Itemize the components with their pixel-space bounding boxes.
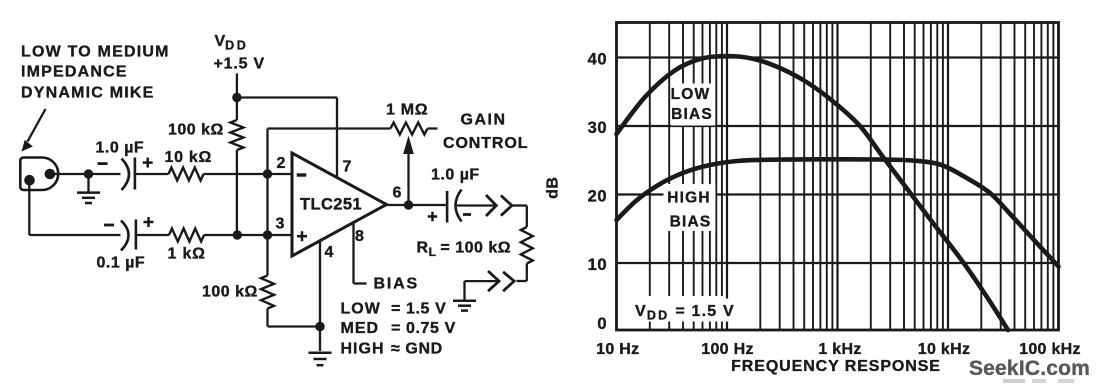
svg-text:20: 20 [588, 187, 607, 205]
svg-text:2: 2 [277, 155, 286, 172]
svg-text:10: 10 [588, 256, 607, 274]
svg-text:1.0 µF: 1.0 µF [431, 167, 480, 184]
svg-text:3: 3 [276, 216, 285, 233]
svg-text:4: 4 [325, 244, 334, 261]
svg-text:HIGH: HIGH [667, 190, 711, 207]
svg-text:dB: dB [545, 177, 562, 199]
svg-text:SeekIC.com: SeekIC.com [969, 357, 1090, 380]
svg-text:100 kΩ: 100 kΩ [202, 284, 258, 301]
svg-text:0.1 µF: 0.1 µF [97, 255, 146, 272]
svg-text:1 kΩ: 1 kΩ [168, 246, 206, 263]
svg-text:LOW: LOW [341, 301, 381, 318]
svg-text:LOW: LOW [671, 86, 711, 103]
svg-text:8: 8 [355, 228, 364, 245]
svg-text:7: 7 [343, 159, 352, 176]
svg-text:TLC251: TLC251 [300, 196, 362, 214]
svg-text:BIAS: BIAS [374, 276, 419, 293]
svg-text:40: 40 [588, 50, 607, 68]
svg-text:1.0 µF: 1.0 µF [96, 140, 145, 157]
svg-text:= 0.75 V: = 0.75 V [391, 320, 456, 337]
svg-text:DYNAMIC MIKE: DYNAMIC MIKE [21, 85, 155, 102]
svg-text:10 kΩ: 10 kΩ [165, 149, 212, 166]
svg-text:IMPEDANCE: IMPEDANCE [21, 64, 128, 81]
svg-text:MED: MED [341, 320, 380, 337]
svg-text:1 MΩ: 1 MΩ [386, 102, 428, 119]
svg-text:BIAS: BIAS [671, 106, 713, 123]
svg-text:FREQUENCY RESPONSE: FREQUENCY RESPONSE [731, 358, 941, 375]
svg-text:100 Hz: 100 Hz [701, 341, 754, 358]
svg-text:≈ GND: ≈ GND [391, 341, 443, 358]
svg-text:+1.5 V: +1.5 V [214, 56, 266, 73]
svg-text:30: 30 [588, 119, 607, 137]
svg-text:LOW TO MEDIUM: LOW TO MEDIUM [21, 44, 170, 61]
svg-text:6: 6 [393, 185, 402, 202]
svg-text:0: 0 [597, 315, 607, 333]
svg-text:BIAS: BIAS [670, 214, 712, 231]
svg-text:= 1.5 V: = 1.5 V [391, 301, 446, 318]
svg-text:GAIN: GAIN [461, 112, 507, 129]
svg-text:10 Hz: 10 Hz [596, 341, 639, 358]
svg-text:HIGH: HIGH [341, 341, 385, 358]
svg-text:1 kHz: 1 kHz [818, 341, 861, 358]
svg-text:10 kHz: 10 kHz [918, 341, 971, 358]
svg-text:100 kΩ: 100 kΩ [168, 122, 224, 139]
svg-text:100 kHz: 100 kHz [1019, 341, 1081, 358]
svg-text:CONTROL: CONTROL [443, 135, 528, 152]
